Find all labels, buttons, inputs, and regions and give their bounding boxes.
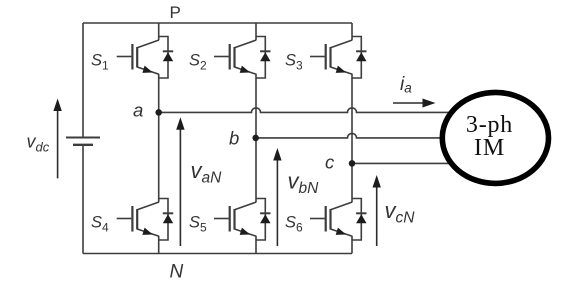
bottom rail (N bus) (83, 253, 352, 255)
v_dc reference arrow (53, 99, 61, 179)
svg-text:vcN: vcN (385, 198, 416, 227)
node b junction dot (252, 135, 259, 142)
node a junction dot (155, 109, 162, 116)
transistor S5 with anti-parallel diode (214, 199, 271, 241)
wire: leg 1 collector drop (158, 23, 160, 40)
wire: leg 1 bottom (158, 236, 160, 254)
wire: leg 3 middle (node c) (351, 74, 353, 202)
phase c line (352, 162, 455, 164)
svg-text:b: b (229, 128, 239, 149)
v_bN reference arrow (273, 148, 281, 246)
svg-text:S6: S6 (285, 214, 303, 235)
svg-text:S4: S4 (91, 214, 109, 235)
wire: leg 3 collector drop (351, 23, 353, 40)
wire: leg 2 collector drop (255, 23, 257, 40)
svg-text:vbN: vbN (288, 169, 320, 198)
svg-text:S3: S3 (285, 52, 303, 73)
transistor S2 with anti-parallel diode (214, 37, 271, 79)
v_aN reference arrow (176, 117, 184, 246)
transistor S1 with anti-parallel diode (117, 37, 174, 79)
top rail (P bus) (83, 22, 352, 24)
svg-text:S5: S5 (189, 214, 207, 235)
svg-text:a: a (133, 100, 143, 121)
svg-text:ia: ia (400, 74, 412, 96)
wire: leg 2 bottom (255, 236, 257, 254)
svg-text:S1: S1 (91, 52, 109, 73)
wire: leg 2 middle (node b) (255, 74, 257, 202)
node c junction dot (349, 160, 356, 167)
phase b line with hop over leg 3 (256, 133, 452, 138)
transistor S6 with anti-parallel diode (310, 199, 367, 241)
motor: 3-phase induction machine circle (442, 92, 548, 183)
transistor S4 with anti-parallel diode (117, 199, 174, 241)
battery v_dc long plate (66, 137, 100, 139)
svg-text:N: N (170, 262, 184, 283)
v_cN reference arrow (373, 175, 381, 246)
wire: leg 1 middle (node a) (158, 74, 160, 202)
svg-text:S2: S2 (189, 52, 207, 73)
phase a line with hops over legs 2 and 3 (159, 108, 452, 113)
wire: left bus bottom segment (82, 145, 84, 254)
i_a current arrow (393, 99, 436, 108)
svg-text:P: P (170, 3, 181, 22)
svg-text:IM: IM (474, 135, 505, 161)
wire: left bus top segment (82, 23, 84, 138)
wire: leg 3 bottom (351, 236, 353, 254)
battery v_dc short plate (73, 144, 93, 146)
svg-text:vaN: vaN (191, 158, 223, 187)
transistor S3 with anti-parallel diode (310, 37, 367, 79)
svg-text:vdc: vdc (27, 132, 50, 155)
svg-text:c: c (325, 152, 335, 173)
